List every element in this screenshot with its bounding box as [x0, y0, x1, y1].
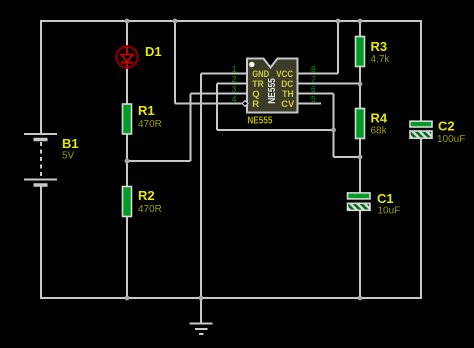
- svg-text:R1: R1: [138, 103, 155, 118]
- svg-text:4: 4: [232, 94, 237, 104]
- svg-text:NE555: NE555: [247, 116, 272, 127]
- svg-text:4.7k: 4.7k: [371, 54, 391, 65]
- svg-text:R: R: [252, 99, 259, 110]
- wire LED column top: [126, 21, 128, 46]
- svg-text:470R: 470R: [138, 204, 162, 215]
- wire R1 to R2: [126, 133, 128, 187]
- svg-text:6: 6: [311, 84, 316, 94]
- junction dot bottom rail / C1: [358, 296, 363, 301]
- junction dot TH / R4-C1 node: [358, 155, 363, 160]
- svg-text:470R: 470R: [138, 119, 162, 130]
- resistor R3: [356, 37, 365, 67]
- junction dot top rail / reset wire: [173, 19, 178, 24]
- wire pin6 TH horizontal: [297, 93, 334, 95]
- wire reset (pin4) vertical from top rail: [174, 21, 176, 104]
- resistor R1: [123, 104, 132, 134]
- wire reset (pin4) horizontal: [175, 103, 242, 105]
- IC U1 NE555: [247, 59, 298, 113]
- junction dot bottom rail / R2: [125, 296, 130, 301]
- wire pin1 GND vertical to ground: [200, 74, 202, 324]
- wire left rail lower (battery - to bottom rail): [40, 185, 42, 298]
- svg-text:5: 5: [311, 94, 316, 104]
- svg-text:R4: R4: [371, 111, 388, 126]
- ground symbol: [190, 324, 213, 335]
- resistor R4: [356, 109, 365, 139]
- wire pin3 Q horizontal: [191, 93, 249, 95]
- wire pin3 Q vertical: [190, 94, 192, 162]
- svg-text:CV: CV: [281, 99, 295, 110]
- svg-text:8: 8: [311, 64, 316, 74]
- svg-text:100uF: 100uF: [437, 134, 465, 145]
- svg-text:68k: 68k: [371, 126, 388, 137]
- junction dot bottom rail / ground: [199, 296, 204, 301]
- wire pin1 GND horizontal: [201, 73, 248, 75]
- resistor R2: [123, 187, 132, 217]
- wire bottom rail: [40, 297, 422, 299]
- pin 4 inversion diamond: [242, 101, 248, 107]
- battery B1: [24, 134, 57, 185]
- wire pin6 TH vertical: [333, 94, 335, 158]
- svg-text:NE555: NE555: [267, 78, 278, 104]
- svg-text:R2: R2: [138, 188, 155, 203]
- wire pin8 VCC horizontal: [297, 73, 338, 75]
- wire right rail lower (C2 to bottom rail): [420, 137, 422, 298]
- wire DC node to R4 top: [359, 84, 361, 109]
- junction dot top rail / R3: [358, 19, 363, 24]
- wire TR to TH horizontal: [217, 129, 334, 131]
- wire pin2 TR horizontal: [217, 83, 248, 85]
- svg-text:D1: D1: [145, 44, 162, 59]
- junction dot top rail / VCC wire: [336, 19, 341, 24]
- wire TH node to C1: [359, 157, 361, 194]
- svg-text:3: 3: [232, 84, 237, 94]
- wire pin7 DC horizontal: [297, 83, 360, 85]
- wire C1 to bottom rail: [359, 209, 361, 298]
- wire top rail: [40, 20, 422, 22]
- junction dot TR / TH wire: [331, 128, 336, 133]
- wire R4 bottom to TH node: [359, 138, 361, 157]
- svg-text:C1: C1: [377, 191, 394, 206]
- wire Q to LED junction: [127, 160, 191, 162]
- svg-text:2: 2: [232, 74, 237, 84]
- junction dot Q / R1-R2 node: [125, 159, 130, 164]
- svg-text:1: 1: [232, 64, 237, 74]
- svg-text:B1: B1: [62, 136, 79, 151]
- svg-text:5V: 5V: [62, 151, 75, 162]
- wire left rail upper (to battery +): [40, 20, 42, 134]
- wire R3 top: [359, 21, 361, 37]
- junction dot DC / R3-R4 node: [358, 82, 363, 87]
- capacitor C2: [410, 121, 432, 138]
- wire TH to R4 bottom: [334, 156, 361, 158]
- wire R2 to bottom rail: [126, 216, 128, 298]
- wire pin2 TR vertical: [216, 84, 218, 131]
- wire LED to R1: [126, 69, 128, 106]
- svg-text:R3: R3: [371, 39, 388, 54]
- junction dot top rail / LED column: [125, 19, 130, 24]
- wire right rail upper (to C2): [420, 20, 422, 122]
- wire pin8 VCC vertical to top rail: [337, 20, 339, 74]
- svg-text:C2: C2: [438, 119, 455, 134]
- wire pin5 CV stub: [297, 103, 321, 105]
- svg-text:10uF: 10uF: [378, 206, 401, 217]
- wire R3 bottom to DC node: [359, 66, 361, 84]
- svg-text:7: 7: [311, 74, 316, 84]
- LED D1: [116, 46, 137, 68]
- capacitor C1: [348, 193, 371, 210]
